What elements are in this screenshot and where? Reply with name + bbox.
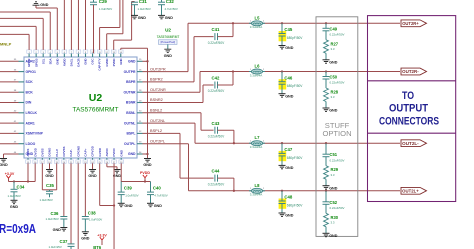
- svg-text:BSPR: BSPR: [126, 80, 136, 84]
- top pin GND: [56, 53, 58, 57]
- svg-text:C52: C52: [330, 200, 338, 205]
- wire: [143, 81, 195, 83]
- left pin GND: [19, 153, 25, 155]
- svg-text:CPVSS: CPVSS: [62, 146, 66, 156]
- ground C34: [11, 200, 18, 203]
- left pin DIN: [19, 102, 25, 104]
- resistor R28: [324, 88, 329, 102]
- svg-text:CAP-P7V: CAP-P7V: [98, 58, 102, 70]
- resistor R29: [324, 166, 329, 180]
- svg-text:XSMT/VNP: XSMT/VNP: [26, 132, 44, 136]
- ground C38: [82, 232, 89, 235]
- right pin OUTPL: [137, 143, 143, 145]
- svg-text:ADR1: ADR1: [26, 121, 35, 125]
- svg-text:R29: R29: [331, 167, 339, 172]
- svg-text:GND: GND: [53, 228, 62, 232]
- wire pin DGND: [49, 163, 51, 169]
- inductor L6: [249, 69, 265, 74]
- svg-text:CAP+: CAP+: [83, 148, 87, 156]
- stuff option box: [316, 17, 358, 237]
- svg-text:PVDD: PVDD: [112, 147, 116, 156]
- svg-text:1.0uF/50V: 1.0uF/50V: [89, 218, 102, 222]
- svg-text:C42: C42: [212, 76, 220, 81]
- svg-text:C45: C45: [284, 27, 292, 32]
- bottom pin DGND: [49, 158, 51, 160]
- svg-text:OUT2NL: OUT2NL: [150, 119, 166, 123]
- svg-text:GND: GND: [329, 60, 338, 64]
- port OUT2L-: [401, 140, 427, 147]
- svg-text:PLLV: PLLV: [55, 149, 59, 156]
- svg-text:3.3: 3.3: [331, 173, 335, 177]
- wire: [143, 91, 201, 93]
- wire to bottom edge: [77, 163, 79, 249]
- svg-text:+3.3V: +3.3V: [5, 172, 15, 176]
- ground C40: [147, 203, 154, 206]
- svg-text:CAP-: CAP-: [69, 149, 73, 156]
- capacitor C32: [161, 0, 163, 2]
- bottom pin AVDD: [106, 158, 108, 160]
- wire pin GND: [92, 163, 94, 169]
- svg-text:GND: GND: [165, 16, 174, 20]
- capacitor C31: [134, 1, 136, 4]
- svg-text:R30: R30: [331, 215, 339, 220]
- svg-text:AVDD: AVDD: [105, 147, 109, 156]
- svg-text:LDOO: LDOO: [26, 142, 36, 146]
- svg-text:TO: TO: [402, 90, 414, 102]
- svg-text:BT6: BT6: [93, 245, 102, 249]
- svg-text:GPIO1: GPIO1: [26, 70, 36, 74]
- top pin GPIO3: [35, 53, 37, 57]
- left pin XSMT/VNP: [19, 132, 25, 134]
- wire C35 bracket: [41, 163, 43, 190]
- svg-text:C32: C32: [166, 0, 175, 4]
- wire C36: [63, 163, 65, 216]
- left pin BCK: [19, 91, 25, 93]
- svg-text:1.0uF/50V: 1.0uF/50V: [125, 194, 138, 198]
- svg-text:1.0uF/50V: 1.0uF/50V: [8, 194, 21, 198]
- capacitor C34: [13, 182, 15, 190]
- wire SCL top-left: [42, 18, 44, 50]
- ground C32: [158, 15, 165, 18]
- svg-text:GND: GND: [0, 163, 8, 167]
- svg-text:R=0x9A: R=0x9A: [0, 221, 36, 236]
- svg-text:OUT2PL: OUT2PL: [150, 139, 166, 143]
- svg-text:OUT2PR: OUT2PR: [150, 67, 166, 71]
- svg-text:C40: C40: [153, 186, 161, 191]
- wire BSNR2 to C42: [202, 85, 204, 103]
- svg-text:CPVDD: CPVDD: [91, 145, 95, 156]
- IC U2 TAS5766MRMT body: [24, 57, 137, 158]
- svg-text:0.22uF/50V: 0.22uF/50V: [208, 41, 225, 45]
- wire powerpad to gnd: [167, 44, 169, 49]
- wire to top edge: [63, 0, 65, 50]
- inductor L7: [249, 141, 265, 146]
- svg-text:SCL: SCL: [41, 58, 45, 64]
- svg-text:PVDD: PVDD: [140, 171, 150, 175]
- svg-text:OUTPR: OUTPR: [124, 70, 136, 74]
- capacitor C42: [215, 82, 218, 89]
- wire row4 OUT2L+: [188, 144, 190, 191]
- svg-text:C51: C51: [330, 152, 338, 157]
- wire: [0, 102, 19, 104]
- svg-text:GND: GND: [154, 204, 163, 208]
- svg-text:3.3uH/4A: 3.3uH/4A: [250, 73, 263, 77]
- svg-text:GND: GND: [88, 174, 97, 178]
- wire C37: [70, 163, 72, 244]
- ground R30: [323, 233, 330, 236]
- svg-text:CPGND: CPGND: [76, 145, 80, 157]
- svg-text:[PowerPad]: [PowerPad]: [161, 40, 176, 44]
- svg-text:2: 2: [263, 141, 265, 143]
- bottom pin GVDD: [99, 158, 101, 160]
- svg-text:C38: C38: [88, 210, 96, 215]
- capacitor C48 highlighted: [279, 199, 287, 209]
- resistor R27: [324, 40, 329, 54]
- wire: [143, 143, 189, 145]
- capacitor C29: [93, 0, 95, 2]
- svg-text:680pF/50V: 680pF/50V: [287, 203, 303, 207]
- wire to top edge: [77, 0, 79, 50]
- right pin BSNR: [137, 102, 143, 104]
- svg-text:4.7uF/50V: 4.7uF/50V: [165, 7, 178, 11]
- svg-text:GND: GND: [285, 166, 294, 170]
- svg-text:CONNECTORS: CONNECTORS: [379, 116, 439, 128]
- svg-text:0.22uF/50V: 0.22uF/50V: [208, 89, 225, 93]
- bottom pin CPVSS: [63, 158, 65, 160]
- bottom pin CPVDD: [92, 158, 94, 160]
- ground right of U2: [144, 159, 151, 162]
- svg-text:BSPR2: BSPR2: [150, 78, 163, 82]
- svg-text:2: 2: [263, 188, 265, 190]
- svg-text:BSNL: BSNL: [126, 111, 135, 115]
- wire GPIO3 top-left: [35, 26, 37, 50]
- svg-text:GND: GND: [128, 152, 136, 156]
- bottom pin DVSS: [41, 158, 43, 160]
- svg-text:GND: GND: [128, 60, 136, 64]
- svg-text:R28: R28: [331, 90, 339, 95]
- capacitor C44: [215, 175, 218, 182]
- svg-text:GVDD: GVDD: [105, 59, 109, 67]
- left pin SCK: [19, 81, 25, 83]
- capacitor C46 highlighted: [279, 79, 287, 89]
- right pin BSNL: [137, 112, 143, 114]
- capacitor C49: [325, 22, 327, 24]
- svg-text:GND: GND: [138, 16, 147, 20]
- bottom pin CAP-: [70, 158, 72, 160]
- svg-text:C31: C31: [139, 0, 148, 4]
- svg-text:GND: GND: [119, 59, 123, 65]
- ground: [0, 159, 7, 162]
- output connector box: [368, 16, 456, 202]
- svg-text:C48: C48: [284, 195, 292, 200]
- wire: [0, 81, 19, 83]
- svg-text:0.22uF/50V: 0.22uF/50V: [208, 134, 225, 138]
- wire: [143, 112, 202, 114]
- svg-text:GND: GND: [124, 204, 133, 208]
- svg-text:C47: C47: [284, 147, 292, 152]
- left pin ADR2: [19, 60, 25, 62]
- svg-text:GND: GND: [40, 3, 49, 7]
- capacitor C45 highlighted: [279, 31, 287, 41]
- wire to bottom edge 3: [113, 163, 115, 249]
- inductor L5: [249, 21, 265, 26]
- svg-text:SCK: SCK: [26, 80, 34, 84]
- svg-text:OUT2L+: OUT2L+: [402, 189, 419, 194]
- svg-text:GPIO2: GPIO2: [27, 58, 31, 67]
- svg-text:2: 2: [263, 69, 265, 71]
- port OUT2R+: [401, 20, 427, 27]
- capacitor C40: [150, 182, 152, 193]
- svg-text:U2: U2: [89, 92, 103, 104]
- ground C46: [279, 94, 286, 97]
- svg-text:SDA: SDA: [48, 59, 52, 65]
- wire pin GVDD join: [99, 163, 101, 205]
- svg-text:2: 2: [263, 21, 265, 23]
- right pin OUTNR: [137, 91, 143, 93]
- right pin BSPR: [137, 81, 143, 83]
- svg-text:GVDD: GVDD: [98, 147, 102, 157]
- svg-text:DACR: DACR: [77, 59, 81, 67]
- wire +3.3V rail: [27, 163, 29, 181]
- bottom pin PVDD: [113, 158, 115, 160]
- svg-text:0.22uF/50V: 0.22uF/50V: [330, 206, 345, 210]
- top pin SDA: [49, 53, 51, 57]
- svg-text:0.22uF/50V: 0.22uF/50V: [330, 158, 345, 162]
- wire: [143, 60, 148, 62]
- svg-text:DVSS: DVSS: [40, 148, 44, 156]
- svg-text:C37: C37: [60, 239, 68, 244]
- top pin GPIO2: [28, 53, 30, 57]
- wire pin14 GND to right vertical: [120, 48, 122, 50]
- ground C36: [60, 228, 67, 231]
- wire: [0, 71, 19, 73]
- svg-text:DACL: DACL: [70, 58, 74, 66]
- top pin PVDD: [113, 53, 115, 57]
- svg-text:1.0uF/50V: 1.0uF/50V: [99, 7, 112, 11]
- top pin SCL: [42, 53, 44, 57]
- svg-text:C46: C46: [284, 75, 292, 80]
- svg-text:40: 40: [14, 111, 17, 113]
- bottom pin CAP+: [84, 158, 86, 160]
- svg-text:1.0uF/25V: 1.0uF/25V: [49, 245, 62, 249]
- top pin GVDD: [106, 53, 108, 57]
- top pin DACL: [70, 53, 72, 57]
- left pin GPIO1: [19, 71, 25, 73]
- svg-text:C44: C44: [212, 169, 220, 174]
- right pin OUTNL: [137, 122, 143, 124]
- capacitor C50: [325, 70, 327, 72]
- svg-text:DIN: DIN: [26, 101, 32, 105]
- ground pin GND: [89, 170, 96, 173]
- wire to top edge: [70, 0, 72, 50]
- svg-text:3.3: 3.3: [331, 95, 335, 99]
- ground powerpad: [164, 49, 171, 52]
- port OUT2R-: [401, 68, 427, 75]
- svg-text:TAS5766MRMT: TAS5766MRMT: [73, 107, 119, 113]
- capacitor C41: [215, 33, 218, 40]
- ground R29: [323, 186, 330, 189]
- svg-text:GND: GND: [45, 174, 54, 178]
- svg-text:GND: GND: [55, 59, 59, 65]
- svg-text:L8: L8: [255, 183, 261, 188]
- svg-text:TAS5766MRMT: TAS5766MRMT: [157, 35, 180, 39]
- svg-text:GND: GND: [143, 163, 152, 167]
- svg-text:GND: GND: [329, 186, 338, 190]
- capacitor C35: [49, 190, 51, 192]
- left pin LRCLK: [19, 112, 25, 114]
- wire: [0, 91, 19, 93]
- top pin AVDD: [63, 53, 65, 57]
- wire: [0, 60, 19, 62]
- bottom pin GND: [120, 158, 122, 160]
- svg-text:3.3uH/4A: 3.3uH/4A: [250, 25, 263, 29]
- wire: [0, 143, 19, 145]
- svg-text:C34: C34: [17, 185, 25, 190]
- capacitor C36: [60, 217, 67, 220]
- svg-text:GND: GND: [285, 46, 294, 50]
- ground mid: [114, 170, 121, 173]
- svg-text:OSC: OSC: [91, 59, 95, 65]
- bottom pin DVDD: [34, 158, 36, 160]
- left pin LDOO: [19, 143, 25, 145]
- svg-text:GND: GND: [285, 214, 294, 218]
- svg-text:AVSS: AVSS: [26, 149, 30, 157]
- wire BSNL2 to C43: [200, 113, 202, 130]
- ground R28: [323, 108, 330, 111]
- ground C47: [279, 165, 286, 168]
- capacitor C47 highlighted: [279, 151, 287, 161]
- wire to mid gnd: [106, 163, 108, 167]
- top pin OSC: [92, 53, 94, 57]
- svg-text:DGND: DGND: [48, 147, 52, 157]
- wire: [4, 153, 19, 155]
- svg-text:U2: U2: [165, 28, 171, 33]
- ground C39: [118, 203, 125, 206]
- svg-text:OUT2NR: OUT2NR: [150, 88, 166, 92]
- wire GPIO2 top-left: [28, 34, 30, 50]
- svg-text:OPTION: OPTION: [322, 129, 351, 138]
- svg-text:L7: L7: [255, 135, 261, 140]
- svg-text:C39: C39: [124, 186, 132, 191]
- wire BSPR2 to C41: [193, 37, 195, 82]
- svg-text:0.22uF/50V: 0.22uF/50V: [330, 33, 345, 37]
- svg-text:OUT2L-: OUT2L-: [402, 141, 419, 146]
- ground C48: [279, 213, 286, 216]
- svg-text:GND: GND: [164, 54, 173, 58]
- wire PVDD rail: [120, 163, 122, 181]
- port OUT2L+: [401, 187, 427, 194]
- svg-text:GND: GND: [81, 236, 90, 240]
- svg-text:C50: C50: [330, 75, 338, 80]
- svg-text:MNLP: MNLP: [0, 42, 12, 47]
- svg-text:1.0uF/50V: 1.0uF/50V: [138, 7, 151, 11]
- svg-text:DVDD: DVDD: [33, 147, 37, 156]
- svg-text:BSPL: BSPL: [126, 132, 135, 136]
- svg-text:L5: L5: [255, 15, 261, 20]
- svg-text:L6: L6: [255, 64, 261, 69]
- right pin OUTPR: [137, 71, 143, 73]
- svg-text:AVDD: AVDD: [62, 59, 66, 67]
- right pin GND: [137, 153, 143, 155]
- svg-text:GND: GND: [84, 59, 88, 65]
- right pin BSPL: [137, 132, 143, 134]
- bottom pin CPGND: [77, 158, 79, 160]
- right pin GND: [137, 60, 143, 62]
- svg-text:C41: C41: [212, 27, 220, 32]
- svg-text:C36: C36: [51, 211, 59, 216]
- bottom pin AVSS: [27, 158, 29, 160]
- inductor L8: [249, 188, 265, 193]
- svg-text:OUTPUT: OUTPUT: [389, 102, 428, 114]
- top pin GND: [85, 53, 87, 57]
- svg-text:C43: C43: [212, 121, 220, 126]
- svg-text:OUTPL: OUTPL: [124, 142, 136, 146]
- svg-text:37: 37: [14, 80, 17, 82]
- wire BSPL2 to C44: [179, 133, 181, 178]
- svg-text:3.3: 3.3: [331, 47, 335, 51]
- svg-text:C49: C49: [330, 26, 338, 31]
- ground C45: [279, 46, 286, 49]
- wire: [143, 122, 196, 124]
- capacitor C43: [215, 127, 218, 134]
- svg-text:BCK: BCK: [26, 90, 34, 94]
- svg-text:+3.3V: +3.3V: [97, 233, 107, 237]
- svg-text:PVDD: PVDD: [112, 59, 116, 67]
- svg-text:OUTNL: OUTNL: [124, 121, 136, 125]
- svg-text:0.22uF/50V: 0.22uF/50V: [208, 182, 225, 186]
- svg-text:4.7uF/50V: 4.7uF/50V: [154, 194, 167, 198]
- wire pin11 up-right-up: [99, 28, 101, 50]
- svg-text:BSNL2: BSNL2: [150, 109, 162, 113]
- svg-text:680pF/50V: 680pF/50V: [287, 156, 303, 160]
- bottom pin PLLV: [56, 158, 58, 160]
- svg-text:3.3: 3.3: [331, 220, 335, 224]
- svg-text:GND: GND: [329, 109, 338, 113]
- wire: [0, 122, 19, 124]
- wire: [143, 132, 181, 134]
- top pin DACR: [77, 53, 79, 57]
- resistor R30: [324, 213, 329, 227]
- svg-text:680pF/50V: 680pF/50V: [287, 84, 303, 88]
- wire C38: [84, 163, 86, 216]
- wire SDA top-left: [49, 12, 51, 50]
- wire row3 OUT2L-: [194, 123, 196, 143]
- ground R27: [323, 60, 330, 63]
- wire: [143, 102, 204, 104]
- svg-text:LRCLK: LRCLK: [26, 111, 38, 115]
- ground DGND: [46, 170, 53, 173]
- capacitor C39: [120, 182, 122, 193]
- capacitor C38: [82, 217, 89, 220]
- svg-text:3.3uH/4A: 3.3uH/4A: [250, 193, 263, 197]
- wire row1 OUT2R+: [187, 23, 189, 71]
- wire GND pin5 to top gnd: [56, 8, 58, 50]
- wire pin13 to C31: [113, 40, 115, 50]
- svg-text:1.0uF/50V: 1.0uF/50V: [46, 217, 59, 221]
- wire: [0, 112, 19, 114]
- wire row2 OUT2R-: [199, 72, 201, 93]
- ground top-left: [33, 2, 40, 5]
- svg-text:C29: C29: [99, 0, 108, 4]
- svg-text:3.3uH/4A: 3.3uH/4A: [250, 145, 263, 149]
- svg-text:GPIO3: GPIO3: [34, 58, 38, 67]
- svg-text:BSNR2: BSNR2: [150, 98, 163, 102]
- svg-text:R27: R27: [331, 41, 339, 46]
- svg-text:1.0uF/50V: 1.0uF/50V: [40, 198, 53, 202]
- wire: [143, 71, 189, 73]
- svg-text:GND: GND: [10, 205, 19, 209]
- top pin CAP-P7V: [99, 53, 101, 57]
